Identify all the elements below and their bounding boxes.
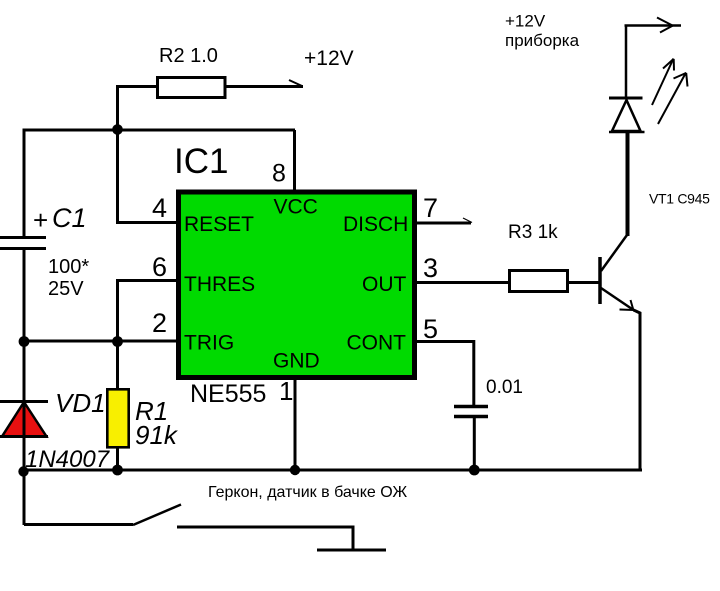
transistor Q1 emitter diagonal xyxy=(601,288,634,310)
svg-text:100*: 100* xyxy=(48,256,89,278)
transistor Q1 collector diagonal xyxy=(601,235,627,271)
svg-text:7: 7 xyxy=(423,193,438,223)
svg-text:TRIG: TRIG xyxy=(184,332,234,355)
LED D1 anode base bar xyxy=(609,131,645,134)
junction dot: cap 0.01 / ground rail xyxy=(469,465,480,476)
svg-text:91k: 91k xyxy=(135,420,179,450)
wire: pin 7 DISCH stub xyxy=(415,222,471,225)
svg-text:CONT: CONT xyxy=(347,332,407,355)
svg-text:приборка: приборка xyxy=(505,31,580,50)
capacitor 0.01 top plate xyxy=(454,405,488,409)
tick at DISCH stub end xyxy=(463,218,472,223)
arrowhead on +12V lead xyxy=(289,80,302,86)
wire: pin 6 branch xyxy=(118,281,179,342)
svg-text:+12V: +12V xyxy=(304,47,354,70)
svg-text:0.01: 0.01 xyxy=(486,377,523,398)
diode VD1 cathode bar xyxy=(0,400,48,403)
resistor R3 body xyxy=(510,271,568,292)
wire: R1 top lead xyxy=(116,341,119,390)
wire: pin 1 GND drop xyxy=(294,378,297,470)
svg-text:VCC: VCC xyxy=(274,196,318,219)
wire: bottom ground rail xyxy=(23,469,643,472)
capacitor 0.01 bottom plate xyxy=(454,415,488,419)
svg-text:RESET: RESET xyxy=(184,213,254,236)
wire: pin 3 OUT to R3 xyxy=(415,281,508,284)
svg-text:R3 1k: R3 1k xyxy=(508,222,558,243)
junction dot: TRIG / R1 xyxy=(112,336,123,347)
svg-text:IC1: IC1 xyxy=(174,142,228,181)
wire: emitter to ground rail xyxy=(634,310,641,470)
LED D1 triangle xyxy=(612,100,641,131)
LED D1 cathode bar xyxy=(609,97,643,100)
wire: pin 4 branch xyxy=(118,129,179,223)
arrowhead on +12V feed xyxy=(657,18,672,26)
transistor Q1 base bar xyxy=(598,257,602,304)
wire: +12V top feed horizontal xyxy=(625,24,682,27)
wire: R2 left lead xyxy=(118,87,157,130)
junction dot: R1 / ground rail xyxy=(112,465,123,476)
emitter arrowhead xyxy=(620,309,634,312)
svg-text:2: 2 xyxy=(152,308,167,338)
svg-text:OUT: OUT xyxy=(362,273,407,296)
wire: R1 bottom lead xyxy=(116,446,119,470)
wire: left rail upper segment xyxy=(23,129,26,238)
svg-text:R2 1.0: R2 1.0 xyxy=(159,45,218,67)
wire: pin 8 drop to VCC xyxy=(293,130,296,192)
LED emission arrow 1 xyxy=(652,59,674,106)
wire: pin 5 CONT branch xyxy=(415,342,474,406)
IC1 NE555 body (green) xyxy=(179,192,415,378)
switch contact foot bar xyxy=(317,549,386,552)
LED emission arrow 2 xyxy=(658,73,686,125)
resistor R1 body (yellow) xyxy=(107,389,128,447)
svg-text:6: 6 xyxy=(152,252,167,282)
svg-text:Геркон, датчик в бачке ОЖ: Геркон, датчик в бачке ОЖ xyxy=(208,484,407,501)
wire: capacitor 0.01 bottom lead xyxy=(473,417,476,470)
resistor R2 body xyxy=(158,78,226,98)
junction dot: left rail / TRIG xyxy=(19,336,30,347)
wire: thick collector vertical to LED xyxy=(626,133,630,236)
svg-text:4: 4 xyxy=(152,193,167,223)
switch blade xyxy=(133,505,181,526)
junction dot: left rail / ground rail xyxy=(18,466,28,476)
svg-text:1: 1 xyxy=(279,376,293,406)
svg-text:VD1: VD1 xyxy=(55,388,106,418)
svg-text:+: + xyxy=(33,205,48,235)
wire: R3 to transistor base xyxy=(569,281,600,284)
diode VD1 anode bar xyxy=(0,435,48,438)
svg-text:VT1 C945: VT1 C945 xyxy=(649,191,710,207)
svg-text:5: 5 xyxy=(423,314,438,344)
svg-text:3: 3 xyxy=(423,253,438,283)
svg-text:NE555: NE555 xyxy=(190,380,266,408)
svg-text:8: 8 xyxy=(272,160,286,188)
switch: left contact wire xyxy=(24,523,133,526)
wire: TRIG pin 2 xyxy=(24,340,178,343)
wire: left rail lower segment xyxy=(23,248,26,525)
svg-text:+12V: +12V xyxy=(505,12,546,31)
svg-text:THRES: THRES xyxy=(184,273,255,296)
wire: top horizontal rail xyxy=(23,129,296,132)
junction dot: R2/top rail xyxy=(112,124,123,135)
diode VD1 (red triangle body) xyxy=(2,402,47,437)
wire: LED anode vertical xyxy=(625,26,628,99)
wire: R2 right lead to +12V xyxy=(226,85,303,88)
capacitor C1 top plate xyxy=(0,236,46,239)
svg-text:C1: C1 xyxy=(52,203,87,233)
svg-text:GND: GND xyxy=(273,350,320,373)
svg-text:25V: 25V xyxy=(48,278,84,300)
svg-text:1N4007: 1N4007 xyxy=(25,446,111,473)
junction dot: pin1 / ground rail xyxy=(290,465,300,475)
capacitor C1 bottom plate xyxy=(0,247,46,250)
switch right contact wire xyxy=(177,527,353,549)
svg-text:DISCH: DISCH xyxy=(343,213,408,236)
